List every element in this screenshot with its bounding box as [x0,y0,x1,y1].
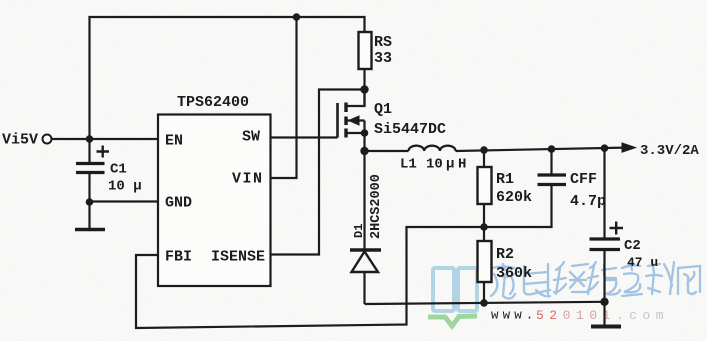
node dot CFF top [548,145,556,153]
svg-text:47 u: 47 u [627,255,658,270]
node dot VIN rail [293,13,301,21]
node dot L1/R1 [480,146,488,154]
svg-text:33: 33 [374,50,392,67]
wire C1 branch [88,139,90,162]
wire EN input [52,138,159,140]
wire R1 top [483,150,485,167]
svg-text:R2: R2 [496,246,514,263]
inductor L1 [400,146,466,173]
svg-text:3.3V/2A: 3.3V/2A [640,143,699,159]
op-amp U1 TPS62400 body [158,94,271,286]
node dot GND/C1 [86,198,94,206]
svg-text:Si5447DC: Si5447DC [374,121,446,138]
node dot R1/R2/FB [480,223,488,231]
svg-text:R1: R1 [496,171,514,188]
node dot SW/L1/D1 [360,147,368,155]
watermark logo book [428,268,477,326]
svg-text:TPS62400: TPS62400 [177,94,249,111]
svg-text:4.7p: 4.7p [570,193,606,210]
terminal Vi5V [2,132,52,149]
resistor R1 [478,167,533,206]
wire CFF top [550,149,552,174]
svg-text:EN: EN [165,133,183,150]
svg-text:GND: GND [165,195,192,212]
wire VIN pin [271,17,297,178]
resistor RS [359,32,393,69]
svg-text:10 μ: 10 μ [108,179,142,195]
svg-text:D1: D1 [352,224,366,238]
watermark url www.520101.com [491,308,669,323]
ground symbol C1 [75,228,105,232]
node dot R2 ground [480,299,488,307]
node dot C2 top [601,144,609,152]
wire SW to gate [271,136,338,138]
svg-text:C1: C1 [110,162,127,178]
wire ground stem C1 [88,202,90,229]
wire CFF bottom [484,185,552,227]
wire ISENSE to drain [271,90,365,255]
node dot Q1 source [361,129,369,137]
svg-text:ISENSE: ISENSE [211,249,265,266]
svg-text:Q1: Q1 [374,101,392,118]
wire GND pin [90,200,159,202]
wire C1 to GND node [88,173,90,202]
wire D1 cathode [363,151,365,249]
capacitor C2 [590,222,659,271]
wire Q1 source to SW node [363,121,365,152]
svg-text:2HCS2000: 2HCS2000 [369,174,384,239]
wire R2 top [483,227,485,241]
svg-text:Vi5V: Vi5V [2,132,38,149]
wire C2 top [603,148,605,238]
capacitor C1 [76,146,142,195]
wire ground rail [365,302,605,304]
svg-text:FBI: FBI [165,249,192,266]
svg-text:520101.com: 520101.com [536,308,669,323]
transistor Q1 Si5447DC [338,90,447,139]
svg-text:CFF: CFF [570,171,597,188]
svg-text:www.: www. [491,309,537,323]
capacitor CFF [538,171,607,210]
svg-text:SW: SW [242,129,260,146]
wire RS bottom to drain [363,69,365,106]
output arrow 3.3V/2A [622,142,700,159]
wire R1 bottom [483,204,485,227]
wire top rail [90,17,365,139]
svg-text:C2: C2 [624,238,641,254]
wire ground stem C2 [603,302,605,325]
node dot EN/C1 [86,135,94,143]
wire D1 anode to ground rail [363,272,365,304]
svg-text:RS: RS [374,34,392,51]
svg-text:620k: 620k [496,189,532,206]
diode D1 [350,174,384,272]
wire FBI feedback loop [136,227,484,328]
watermark text 家电维修资料网 [491,262,700,299]
ground symbol C2 [591,325,621,329]
wire SW node to L1 [365,150,409,152]
resistor R2 [478,241,533,282]
node dot C2 ground [600,298,608,306]
svg-text:VIN: VIN [232,171,264,188]
node dot drain/ISENSE [360,85,368,93]
svg-text:360k: 360k [496,265,532,282]
wire R2 bottom [483,282,485,303]
wire L1 to output arrow [456,148,625,151]
wire C2 bottom [603,251,605,302]
